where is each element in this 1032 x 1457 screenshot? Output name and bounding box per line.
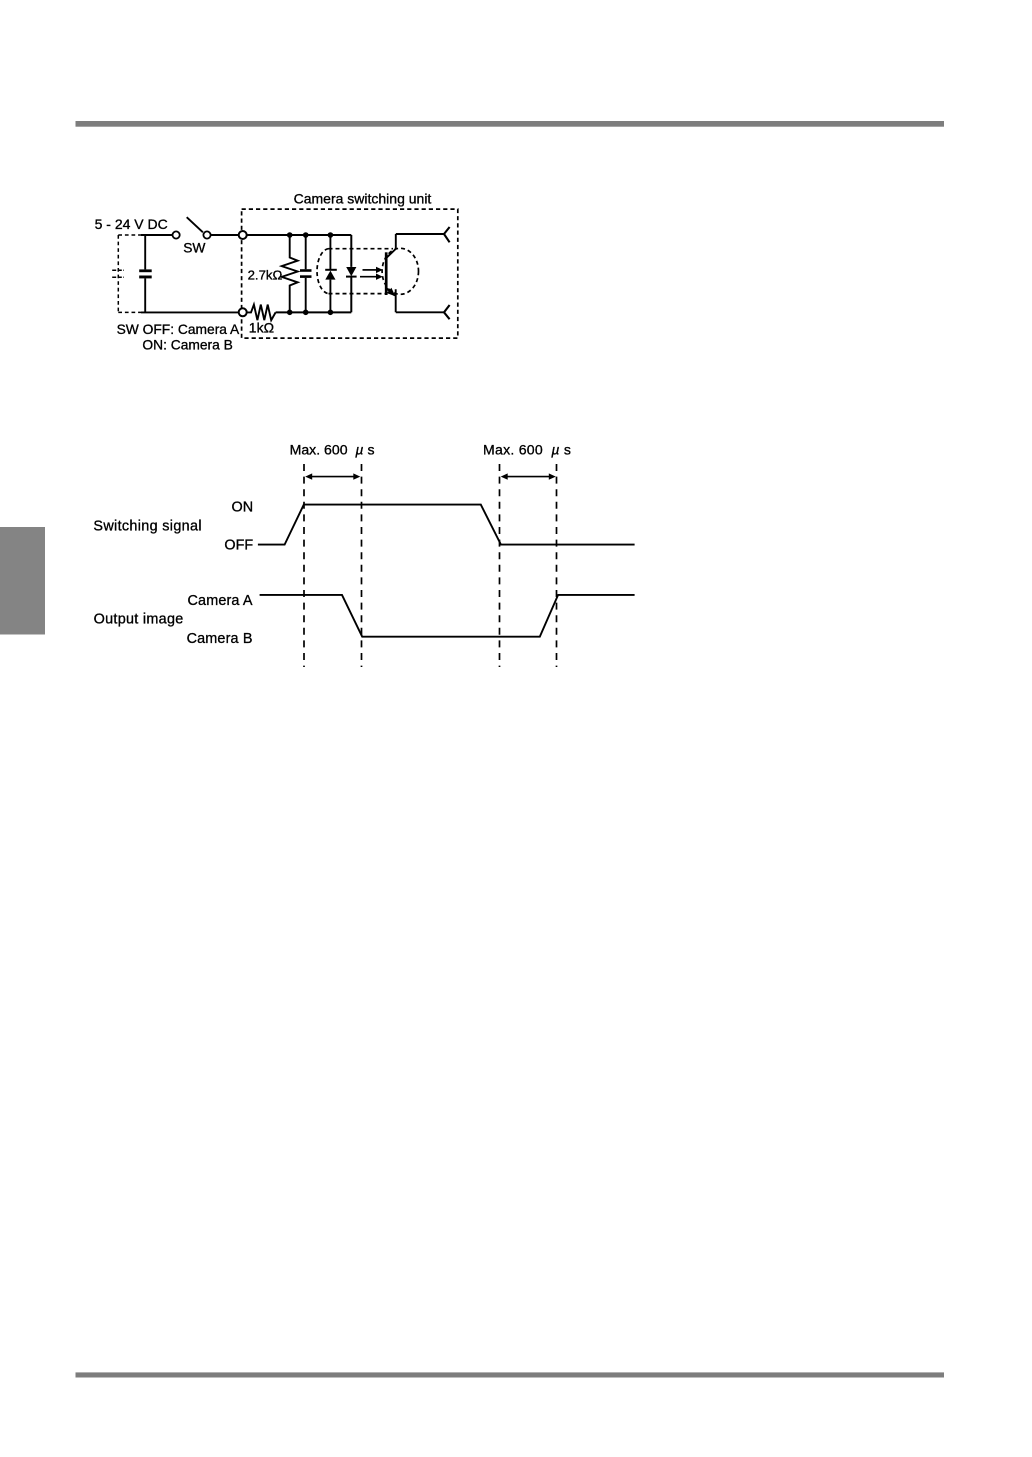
interval arrow (second) — [501, 473, 556, 479]
terminal: unit input (top) — [239, 231, 247, 239]
svg-text:1kΩ: 1kΩ — [249, 320, 274, 336]
wire: top bus inside unit — [247, 234, 351, 236]
transistor dashed circle — [382, 248, 418, 294]
svg-text:Max. 600 µ s: Max. 600 µ s — [290, 441, 375, 457]
wire: supply positive to switch — [141, 234, 172, 236]
LED D2 (down) — [346, 235, 357, 312]
svg-text:Output image: Output image — [94, 612, 184, 628]
svg-text:Switching signal: Switching signal — [93, 519, 201, 535]
top rule bar — [76, 121, 945, 127]
capacitor C1 (supply filter) — [139, 235, 152, 312]
wire: collector to output A — [396, 233, 444, 235]
junction: bottom bus dots — [287, 310, 333, 316]
svg-text:Max. 600 µ s: Max. 600 µ s — [483, 441, 571, 457]
output terminal B chevron — [444, 305, 450, 319]
battery polarity + mark — [112, 270, 124, 277]
switching signal waveform — [258, 505, 635, 545]
timing guide dashed lines — [304, 464, 557, 667]
LED D1 (up) — [325, 235, 337, 312]
switch SW — [173, 217, 211, 238]
junction: top bus dots — [287, 232, 333, 238]
phototransistor Q1 — [386, 234, 396, 312]
wire: bottom bus inside unit (after R2) — [276, 311, 352, 313]
svg-text:2.7kΩ: 2.7kΩ — [248, 268, 283, 283]
bottom rule bar — [76, 1372, 945, 1377]
resistor R2 1kOhm (series, horizontal) — [247, 305, 276, 321]
camera switching unit dashed box — [242, 209, 458, 338]
svg-text:Camera B: Camera B — [187, 631, 253, 647]
optocoupler dashed outline — [317, 249, 393, 294]
svg-text:Camera A: Camera A — [188, 593, 253, 609]
interval arrow (first) — [305, 473, 360, 479]
svg-text:ON: ON — [232, 500, 254, 516]
power supply dashed outline — [118, 235, 141, 312]
output terminal A chevron — [444, 227, 450, 242]
terminal: unit input (bottom) — [239, 308, 247, 316]
svg-text:ON: Camera B: ON: Camera B — [142, 337, 232, 352]
svg-text:OFF: OFF — [224, 538, 253, 554]
wire: supply return (bottom) — [141, 311, 239, 313]
capacitor C2 (shunt) — [300, 235, 312, 312]
svg-text:SW: SW — [183, 240, 205, 255]
output image waveform — [260, 595, 635, 637]
wire: emitter to output B — [396, 311, 444, 313]
section tab (left margin) — [0, 527, 45, 635]
light arrows — [360, 267, 383, 280]
wire: switch to unit input terminal — [211, 234, 239, 236]
svg-text:Camera switching unit: Camera switching unit — [294, 191, 432, 207]
resistor R1 2.7kOhm (shunt, vertical) — [282, 235, 298, 312]
svg-text:5 - 24 V DC: 5 - 24 V DC — [95, 216, 168, 232]
svg-text:SW OFF: Camera A: SW OFF: Camera A — [117, 322, 240, 337]
